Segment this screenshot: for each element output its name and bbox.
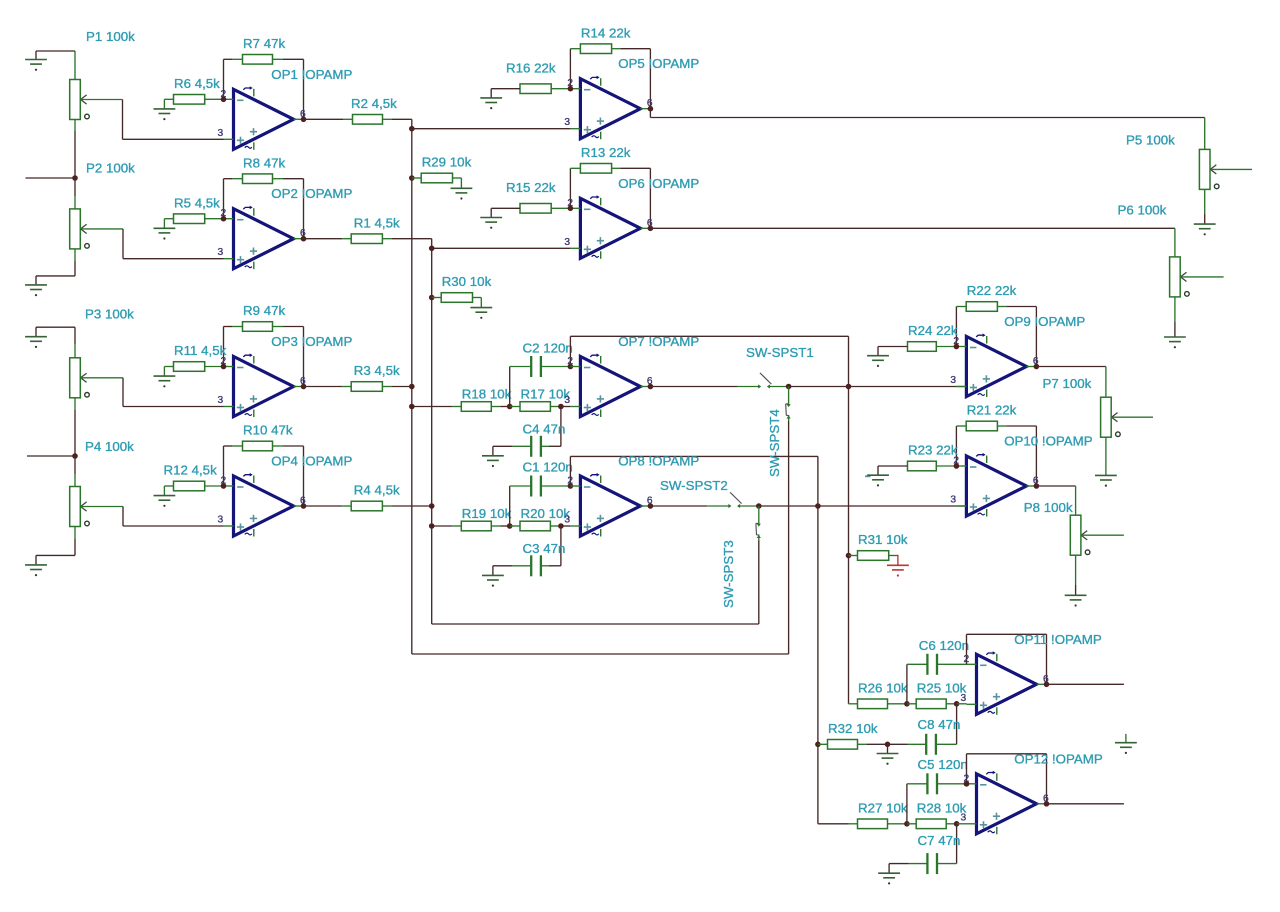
svg-text:R18 10k: R18 10k	[462, 386, 512, 401]
svg-text:SW-SPST1: SW-SPST1	[746, 345, 814, 360]
svg-text:R2 4,5k: R2 4,5k	[351, 96, 397, 111]
svg-text:R3 4,5k: R3 4,5k	[354, 363, 400, 378]
svg-text:SW-SPST3: SW-SPST3	[721, 540, 736, 608]
svg-text:R30 10k: R30 10k	[442, 274, 492, 289]
svg-text:R1 4,5k: R1 4,5k	[354, 215, 400, 230]
svg-text:OP3 !OPAMP: OP3 !OPAMP	[271, 334, 352, 349]
svg-text:R7 47k: R7 47k	[243, 36, 285, 51]
svg-text:OP6 !OPAMP: OP6 !OPAMP	[618, 176, 699, 191]
svg-text:R9 47k: R9 47k	[243, 303, 285, 318]
svg-text:R5 4,5k: R5 4,5k	[174, 195, 220, 210]
svg-text:C4 47n: C4 47n	[523, 422, 566, 437]
svg-text:R27 10k: R27 10k	[858, 800, 908, 815]
svg-text:OP9 !OPAMP: OP9 !OPAMP	[1004, 314, 1085, 329]
svg-text:C1 120n: C1 120n	[523, 460, 573, 475]
svg-text:OP10 !OPAMP: OP10 !OPAMP	[1004, 434, 1093, 449]
svg-text:3: 3	[950, 495, 956, 506]
svg-text:OP12 !OPAMP: OP12 !OPAMP	[1014, 751, 1103, 766]
svg-text:P7 100k: P7 100k	[1043, 376, 1092, 391]
svg-text:C2 120n: C2 120n	[523, 341, 573, 356]
svg-text:R23 22k: R23 22k	[908, 443, 958, 458]
svg-text:C7 47n: C7 47n	[918, 833, 961, 848]
svg-text:P2 100k: P2 100k	[86, 161, 135, 176]
svg-text:R16 22k: R16 22k	[506, 60, 556, 75]
svg-text:3: 3	[564, 395, 570, 406]
svg-text:P3 100k: P3 100k	[85, 307, 134, 322]
svg-text:R19 10k: R19 10k	[462, 506, 512, 521]
svg-text:R21 22k: R21 22k	[967, 403, 1017, 418]
svg-text:P4 100k: P4 100k	[85, 439, 134, 454]
svg-text:3: 3	[564, 515, 570, 526]
svg-text:2: 2	[567, 476, 573, 487]
svg-text:R12 4,5k: R12 4,5k	[164, 463, 218, 478]
svg-text:3: 3	[961, 693, 967, 704]
svg-text:OP11 !OPAMP: OP11 !OPAMP	[1014, 632, 1102, 647]
svg-text:R31 10k: R31 10k	[858, 532, 908, 547]
svg-text:R8 47k: R8 47k	[243, 155, 285, 170]
svg-text:R4 4,5k: R4 4,5k	[354, 483, 400, 498]
svg-text:P8 100k: P8 100k	[1024, 500, 1073, 515]
svg-text:3: 3	[950, 375, 956, 386]
svg-text:SW-SPST4: SW-SPST4	[767, 409, 782, 477]
svg-text:R13 22k: R13 22k	[581, 145, 631, 160]
svg-text:OP1 !OPAMP: OP1 !OPAMP	[271, 67, 352, 82]
svg-text:R11 4,5k: R11 4,5k	[174, 343, 227, 358]
svg-text:R22 22k: R22 22k	[967, 283, 1017, 298]
svg-text:R20 10k: R20 10k	[521, 506, 571, 521]
svg-text:C6 120n: C6 120n	[919, 638, 969, 653]
svg-text:OP7 !OPAMP: OP7 !OPAMP	[618, 334, 699, 349]
svg-text:2: 2	[964, 654, 970, 665]
svg-text:C5 120n: C5 120n	[918, 757, 968, 772]
svg-text:P1 100k: P1 100k	[86, 29, 135, 44]
svg-text:P5 100k: P5 100k	[1126, 133, 1175, 148]
svg-text:P6 100k: P6 100k	[1118, 203, 1167, 218]
svg-text:R32 10k: R32 10k	[828, 721, 878, 736]
svg-text:2: 2	[567, 356, 573, 367]
svg-text:OP5 !OPAMP: OP5 !OPAMP	[618, 56, 699, 71]
svg-text:3: 3	[218, 128, 224, 139]
svg-text:3: 3	[961, 812, 967, 823]
svg-text:SW-SPST2: SW-SPST2	[660, 478, 728, 493]
svg-text:OP8 !OPAMP: OP8 !OPAMP	[618, 454, 699, 469]
svg-text:3: 3	[564, 117, 570, 128]
svg-text:R28 10k: R28 10k	[917, 800, 967, 815]
svg-text:R10 47k: R10 47k	[243, 423, 293, 438]
svg-text:3: 3	[218, 515, 224, 526]
svg-text:C8 47n: C8 47n	[918, 717, 961, 732]
svg-text:R25 10k: R25 10k	[917, 680, 967, 695]
svg-text:R29 10k: R29 10k	[422, 155, 472, 170]
svg-text:R26 10k: R26 10k	[858, 680, 908, 695]
svg-text:3: 3	[564, 237, 570, 248]
svg-text:R14 22k: R14 22k	[581, 25, 631, 40]
svg-text:OP4 !OPAMP: OP4 !OPAMP	[271, 454, 352, 469]
svg-text:3: 3	[218, 395, 224, 406]
svg-text:R24 22k: R24 22k	[908, 323, 958, 338]
svg-text:3: 3	[218, 247, 224, 258]
svg-text:R17 10k: R17 10k	[521, 386, 571, 401]
svg-text:R6 4,5k: R6 4,5k	[174, 76, 220, 91]
svg-text:C3 47n: C3 47n	[523, 541, 566, 556]
svg-text:R15 22k: R15 22k	[506, 180, 556, 195]
svg-text:OP2 !OPAMP: OP2 !OPAMP	[271, 186, 352, 201]
